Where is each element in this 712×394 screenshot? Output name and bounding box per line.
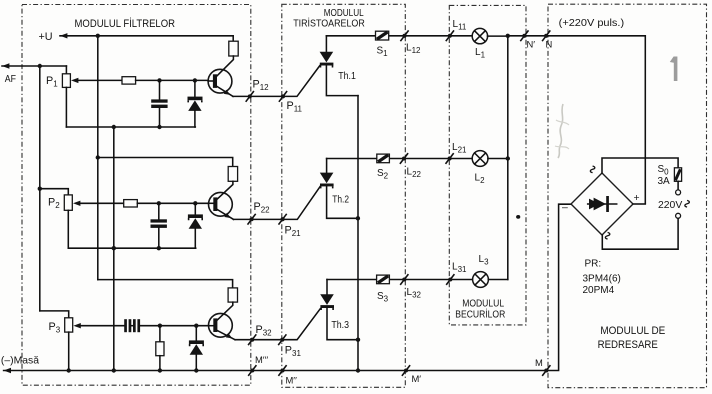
connector M'' (278, 365, 286, 376)
wire emitter ch3 to gate (235, 309, 320, 340)
svg-text:REDRESARE: REDRESARE (598, 339, 658, 351)
connector P12 (246, 91, 254, 102)
transistor Q2 (209, 192, 233, 216)
svg-text:(–)Masă: (–)Masă (1, 356, 39, 367)
svg-text:3PM4(6): 3PM4(6) (583, 274, 621, 285)
wire +U rail (60, 36, 233, 41)
svg-text:Th.1: Th.1 (338, 71, 356, 82)
connector L12 (400, 30, 408, 41)
svg-text:TIRİSTOARELOR: TIRİSTOARELOR (293, 17, 365, 30)
artifact faint smudge (558, 104, 563, 158)
wire collector ch3 (217, 302, 233, 320)
wire lamp row 1 (326, 35, 472, 37)
wire P3 wiper (80, 325, 124, 327)
wire channel-1 ground rail (66, 126, 195, 128)
wire P1 wiper to base (78, 79, 123, 81)
resistor R2 collector ch1 (229, 41, 238, 56)
wire AF line (2, 65, 66, 67)
connector L32 (400, 274, 408, 285)
fuse S1 (376, 31, 389, 40)
fuse S2 (377, 154, 390, 163)
terminal upper (677, 181, 679, 190)
connector P31 (278, 334, 286, 345)
resistor R3 (124, 200, 138, 207)
connector M' (402, 365, 410, 376)
thyristor Th.3 (326, 280, 328, 295)
wire collector ch1 (217, 56, 234, 76)
svg-text:AF: AF (5, 74, 16, 85)
svg-text:M′′: M′′ (286, 375, 298, 386)
connector L31 (446, 274, 454, 285)
svg-text:MODULUL FİLTRELOR: MODULUL FİLTRELOR (75, 17, 176, 30)
svg-text:Th.2: Th.2 (332, 195, 349, 206)
resistor R6 collector ch3 (228, 288, 237, 302)
connector N (542, 30, 550, 41)
svg-text:MODULUL: MODULUL (324, 8, 364, 19)
svg-text:MODULUL: MODULUL (462, 299, 504, 310)
svg-text:(+220V puls.): (+220V puls.) (559, 18, 624, 29)
module box: MODULUL DE REDRESARE (548, 4, 707, 388)
wire bridge + output (633, 203, 645, 205)
wire lamp3 to common (488, 279, 508, 281)
svg-text:–: – (562, 203, 568, 214)
zener diode D2 (194, 203, 196, 214)
wire main ground rail (4, 368, 11, 373)
lamp L3 (473, 272, 489, 288)
wire lamp row 3 (327, 279, 473, 281)
connector L21 (446, 153, 454, 164)
wire P3 feed (40, 311, 69, 318)
svg-text:+: + (634, 193, 640, 204)
wire thyristor common cathode (357, 96, 359, 371)
module box: MODULUL TIRISTOARELOR (282, 4, 406, 387)
wire ground link vertical (113, 127, 115, 371)
resistor R4 collector ch2 (228, 167, 237, 182)
artifact grey 1 (670, 57, 678, 82)
thyristor Th.2 (326, 159, 328, 173)
resistor R5 (159, 326, 161, 342)
connector N' (520, 30, 528, 41)
terminal lower (676, 213, 681, 218)
connector P22 (248, 214, 256, 225)
zener diode D3 (195, 326, 197, 341)
wire P2 feed (40, 189, 69, 195)
wire P2 wiper to base (80, 202, 124, 204)
module box: MODULUL FILTRELOR (22, 5, 251, 386)
zener diode D1 (194, 80, 196, 96)
wire lamp2 to common (488, 158, 508, 160)
connector L11 (446, 30, 454, 41)
transistor Q1 (208, 69, 232, 93)
wire ch2 collector feed (98, 158, 233, 167)
svg-text:20PM4: 20PM4 (583, 285, 615, 296)
svg-text:+U: +U (39, 31, 53, 43)
svg-text:PR:: PR: (585, 259, 602, 270)
artifact ink blob (516, 215, 520, 219)
connector P32 (248, 334, 256, 345)
svg-text:MODULUL DE: MODULUL DE (600, 325, 665, 337)
wire lamp1 to N (488, 35, 508, 37)
wire +U feed vertical (97, 36, 99, 280)
svg-text:220V: 220V (658, 200, 682, 211)
connector L22 (400, 153, 408, 164)
lamp L2 (472, 151, 488, 167)
connector P11 (279, 91, 287, 102)
svg-text:M′′′: M′′′ (255, 354, 268, 365)
wire emitter ch1 to gate (233, 66, 320, 97)
bridge rectifier PR (571, 173, 633, 235)
resistor R1 (122, 77, 136, 84)
connector M (542, 365, 550, 376)
svg-text:N: N (546, 39, 553, 50)
wire lamp common vertical (507, 36, 509, 280)
wire bridge AC top (602, 158, 678, 173)
wire lamp row 2 (327, 158, 473, 160)
module box: MODULUL BECURILOR (449, 5, 526, 325)
svg-text:M: M (535, 357, 543, 368)
fuse S3 (377, 275, 390, 284)
svg-text:BECURİLOR: BECURİLOR (455, 308, 505, 321)
transistor Q3 (209, 313, 233, 337)
svg-text:3A: 3A (658, 176, 671, 187)
svg-text:M′: M′ (412, 373, 422, 384)
capacitor C2 (158, 203, 160, 219)
wire emitter ch2 to gate (234, 187, 321, 220)
wire channel-2 ground rail (68, 247, 195, 249)
capacitor C3 C4 series (124, 319, 127, 332)
wire AF feed vertical (39, 66, 41, 311)
svg-text:N′: N′ (527, 39, 536, 50)
wire collector ch2 (217, 181, 233, 199)
thyristor Th.1 (325, 36, 327, 52)
connector M''' (248, 365, 256, 376)
wire ch3 collector feed (98, 280, 233, 288)
svg-text:Th.3: Th.3 (331, 320, 349, 331)
wire bridge AC bottom (602, 218, 678, 249)
lamp L1 (472, 28, 487, 43)
fuse S0 (674, 168, 681, 182)
connector P21 (279, 214, 287, 225)
capacitor C1 (159, 80, 161, 99)
